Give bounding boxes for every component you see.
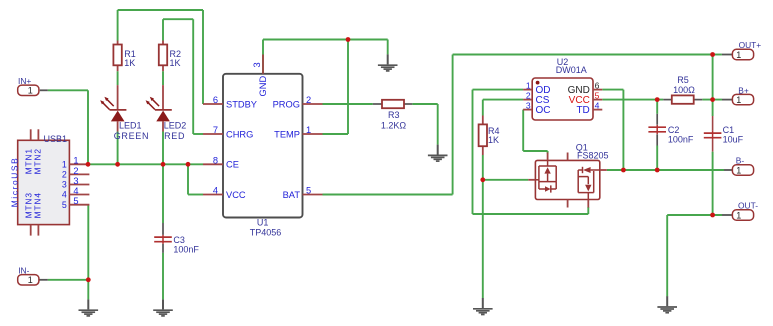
connector OUT-: [722, 201, 758, 221]
wire R2 to LED2: [162, 71, 164, 85]
resistor R3: [373, 100, 413, 108]
R2 labels: [170, 49, 182, 68]
svg-text:1K: 1K: [488, 135, 499, 145]
U1 pin 2 PROG: [273, 95, 323, 109]
svg-text:1: 1: [62, 160, 67, 170]
svg-text:3: 3: [526, 100, 531, 110]
svg-text:LED2: LED2: [164, 120, 187, 130]
wire CS junction to Q1 source: [483, 179, 529, 181]
svg-text:R5: R5: [677, 75, 689, 85]
svg-text:MicroUSB: MicroUSB: [9, 157, 19, 208]
wire LED1 cathode to bus: [117, 132, 119, 165]
USB1 label: [44, 134, 68, 144]
svg-text:1: 1: [28, 86, 33, 96]
svg-text:MTN4: MTN4: [33, 192, 43, 218]
wire R4 to node CS junction: [482, 155, 484, 180]
wire OUT- net: [667, 215, 722, 296]
svg-text:BAT: BAT: [283, 190, 301, 200]
U1 pin 3 GND: [252, 55, 268, 97]
capacitor C3: [154, 223, 172, 253]
wire OUT+ to B+ riser: [712, 55, 714, 100]
svg-text:5: 5: [73, 196, 78, 206]
svg-text:TP4056: TP4056: [250, 227, 282, 237]
svg-text:2: 2: [73, 166, 78, 176]
wire R2 to U1 CHRG: [163, 19, 203, 134]
svg-text:2: 2: [306, 95, 311, 105]
resistor R1: [113, 41, 121, 72]
svg-text:B-: B-: [736, 156, 745, 166]
R1 labels: [124, 49, 136, 68]
USB1 MicroUSB vertical label: [9, 157, 19, 208]
wire 5V bus (USB pin1 to U1 CE): [87, 163, 203, 165]
svg-text:3: 3: [62, 180, 67, 190]
C3 labels: [173, 235, 199, 254]
ground below CS junction: [473, 298, 493, 315]
U2 pin 5 VCC: [569, 90, 603, 106]
LED2 labels: [164, 120, 187, 140]
svg-text:1: 1: [306, 125, 311, 135]
USB1 mounting pin MTN2: [37, 129, 39, 140]
junction IN-/USB GND: [86, 277, 91, 282]
wire C1 top lead: [712, 100, 714, 131]
junction VCC/R5/C2 node: [655, 97, 660, 102]
junction CS node: [480, 177, 485, 182]
svg-text:USB1: USB1: [44, 134, 68, 144]
USB1 mounting pin MTN3: [30, 225, 32, 236]
svg-text:RED: RED: [164, 131, 185, 141]
ground at U1 GND net: [378, 54, 398, 71]
svg-text:OUT+: OUT+: [739, 40, 762, 50]
svg-text:100nF: 100nF: [668, 135, 694, 145]
LED2 anode lead: [162, 85, 164, 110]
U2 pin 4 TD: [576, 100, 602, 116]
wire IN- to USB GND: [48, 205, 89, 280]
svg-text:3: 3: [73, 176, 78, 186]
capacitor C2: [648, 125, 666, 134]
wire U1 TEMP to GND net: [323, 40, 349, 135]
LED1 labels: [114, 120, 150, 140]
U1 labels: [250, 218, 282, 238]
svg-text:1K: 1K: [170, 58, 181, 68]
U2 pin 3 OC: [523, 100, 550, 116]
LED diode LED1: [110, 110, 127, 132]
svg-text:2: 2: [526, 90, 531, 100]
svg-text:IN+: IN+: [18, 76, 31, 86]
svg-text:3: 3: [252, 62, 262, 67]
svg-text:B+: B+: [738, 85, 749, 95]
svg-text:6: 6: [213, 95, 218, 105]
svg-text:1: 1: [28, 275, 33, 285]
wire R1 to U1 STDBY: [118, 10, 203, 104]
svg-text:FS8205: FS8205: [577, 151, 609, 161]
svg-text:4: 4: [213, 186, 218, 196]
junction LED1 bus: [115, 162, 120, 167]
capacitor C1: [704, 131, 722, 140]
USB1 pin name MTN2: [33, 148, 43, 174]
ground below C3: [153, 299, 173, 316]
svg-text:R3: R3: [388, 110, 400, 120]
svg-text:1: 1: [736, 50, 741, 60]
U2 pin 1 OD: [523, 80, 550, 96]
junction OUT- node: [710, 213, 715, 218]
Q1 right pin: [600, 169, 607, 171]
svg-text:1: 1: [526, 80, 531, 90]
wire LED2 cathode to bus: [162, 132, 164, 165]
Q1 left MOSFET symbol: [535, 160, 556, 192]
wire U1 PROG to R3: [323, 103, 373, 105]
svg-text:2: 2: [62, 170, 67, 180]
R3 labels: [381, 110, 407, 130]
wire U2 VCC to R5: [602, 99, 663, 101]
connector B-: [724, 156, 754, 176]
svg-text:7: 7: [213, 125, 218, 135]
connector IN-: [18, 266, 48, 286]
svg-text:PROG: PROG: [273, 99, 300, 109]
svg-text:1: 1: [73, 156, 78, 166]
USB1 MicroUSB body: [18, 140, 70, 224]
svg-text:5: 5: [595, 90, 600, 100]
USB1 mounting pin MTN1: [30, 129, 32, 140]
USB1 pins 1-5: [69, 164, 89, 204]
wire C1 bottom lead: [712, 140, 714, 215]
R4 labels: [488, 126, 500, 145]
resistor R2: [159, 41, 167, 72]
svg-text:OUT-: OUT-: [738, 201, 758, 211]
wire U2 GND to B- net: [602, 90, 623, 170]
U1 pin 8 CE: [203, 156, 239, 170]
svg-text:5: 5: [306, 186, 311, 196]
C2 labels: [668, 125, 694, 144]
svg-text:TD: TD: [576, 105, 589, 116]
wire R3 to ground: [412, 104, 437, 145]
svg-text:CHRG: CHRG: [226, 129, 253, 139]
junction GND net: [346, 37, 351, 42]
ground at OUT-: [657, 296, 677, 313]
U2 pin1 marker dot: [536, 81, 540, 85]
wire U2 OD to Q1 gate: [473, 90, 589, 214]
junction LED2 C3 bus: [161, 162, 166, 167]
Q1 bottom pins: [568, 200, 589, 208]
svg-text:IN-: IN-: [18, 266, 29, 276]
wire C2 top lead: [656, 100, 658, 125]
wire bus to C3: [162, 164, 164, 223]
Q1 labels: [576, 142, 609, 160]
svg-text:4: 4: [595, 100, 600, 110]
U1 pin 1 TEMP: [274, 125, 322, 139]
wire U1 GND net: [263, 40, 388, 74]
U1 pin 7 CHRG: [203, 125, 253, 139]
U1 pin 4 VCC: [203, 186, 246, 200]
svg-text:U1: U1: [257, 218, 269, 228]
USB1 pin name MTN1: [23, 148, 33, 174]
svg-text:LED1: LED1: [119, 120, 142, 130]
resistor R4: [479, 116, 487, 156]
svg-text:5: 5: [62, 200, 67, 210]
svg-text:4: 4: [73, 186, 78, 196]
junction Q1 drain B- node: [621, 168, 626, 173]
wire CS junction to ground: [482, 180, 484, 298]
wire U1 BAT to OUT+: [323, 55, 722, 195]
svg-text:STDBY: STDBY: [226, 99, 257, 109]
U1 pin 6 STDBY: [203, 95, 257, 109]
Q1 right MOSFET symbol: [578, 167, 600, 200]
Q1 top pins: [548, 153, 568, 161]
transistor Q1 body: [535, 160, 599, 199]
USB1 pin name MTN4: [33, 192, 43, 218]
wire bus to U1 VCC: [188, 164, 203, 194]
svg-text:1: 1: [736, 165, 741, 175]
op-amp U1 body: [223, 74, 303, 218]
wire C3 to ground: [162, 253, 164, 300]
USB1 pin names 1-5 inside: [62, 160, 67, 210]
U2 labels: [556, 57, 587, 75]
svg-text:10uF: 10uF: [723, 135, 744, 145]
U2 pin 6 GND: [568, 80, 603, 96]
wire U2 CS to R4: [483, 100, 523, 116]
ground below R3: [428, 145, 448, 162]
wire R1 to LED1: [117, 71, 119, 85]
svg-text:8: 8: [213, 156, 218, 166]
resistor R5: [663, 95, 702, 103]
svg-text:GND: GND: [258, 76, 268, 97]
Q1 left pin: [528, 179, 535, 181]
op-amp U2 body: [532, 78, 593, 120]
wire USB GND to ground: [87, 280, 89, 300]
svg-text:1.2KΩ: 1.2KΩ: [381, 120, 407, 130]
junction C2/B- node: [655, 168, 660, 173]
LED2 light arrows: [146, 97, 160, 110]
U2 pin 2 CS: [523, 90, 550, 106]
connector B+: [722, 85, 754, 105]
wire C2 bottom lead: [656, 134, 658, 170]
svg-text:1: 1: [736, 210, 741, 220]
svg-text:TEMP: TEMP: [274, 129, 300, 139]
LED diode LED2: [155, 110, 172, 132]
USB1 mounting pin MTN4: [37, 225, 39, 236]
USB1 pin numbers outside: [73, 156, 78, 206]
ground at USB/IN-: [79, 299, 99, 316]
LED1 anode lead: [117, 85, 119, 110]
wire IN+ to bus riser: [48, 90, 88, 164]
LED1 light arrows: [100, 97, 114, 110]
svg-text:MTN2: MTN2: [33, 148, 43, 174]
svg-text:4: 4: [62, 190, 67, 200]
connector IN+: [18, 76, 48, 96]
junction VCC branch bus: [186, 162, 191, 167]
R5 labels: [673, 75, 695, 95]
wire B- net: [607, 169, 724, 171]
svg-text:1: 1: [736, 95, 741, 105]
U1 pin 5 BAT: [283, 186, 323, 200]
C1 labels: [723, 125, 744, 144]
connector OUT+: [722, 40, 761, 60]
junction B+ node: [710, 97, 715, 102]
svg-text:VCC: VCC: [226, 190, 246, 200]
svg-text:1K: 1K: [124, 58, 135, 68]
svg-text:OC: OC: [536, 105, 551, 116]
junction IN+ bus: [86, 162, 91, 167]
svg-text:DW01A: DW01A: [556, 65, 587, 75]
svg-text:100nF: 100nF: [173, 244, 199, 254]
svg-text:100Ω: 100Ω: [673, 85, 695, 95]
wire R5 to B+: [702, 99, 722, 101]
junction OUT+ node: [710, 52, 715, 57]
wire U2 OC to Q1: [523, 110, 547, 154]
svg-text:6: 6: [595, 80, 600, 90]
svg-text:CE: CE: [226, 160, 239, 170]
svg-text:GREEN: GREEN: [114, 131, 150, 141]
USB1 pin name MTN3: [23, 192, 33, 218]
